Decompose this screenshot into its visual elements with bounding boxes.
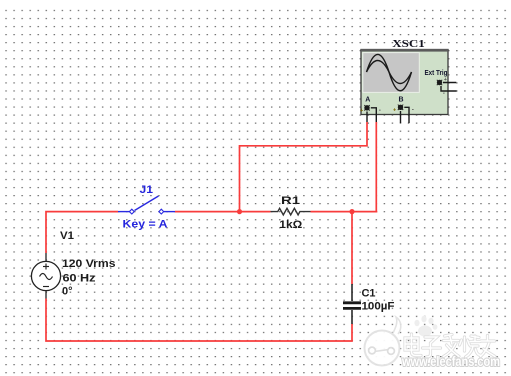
terminal A	[360, 105, 381, 114]
scope waveform outer	[367, 54, 412, 90]
svg-text:1kΩ: 1kΩ	[279, 219, 302, 231]
svg-text:C1: C1	[362, 287, 376, 299]
svg-text:J1: J1	[140, 184, 154, 196]
svg-text:120 Vrms: 120 Vrms	[62, 258, 116, 270]
junction left node	[237, 209, 242, 214]
svg-text:+: +	[444, 77, 447, 83]
wire: switch to resistor	[175, 211, 271, 213]
Ext Trig terminal	[437, 77, 447, 97]
svg-text:Ext Trig: Ext Trig	[425, 70, 448, 77]
wire: resistor to scope A- corner	[311, 211, 378, 213]
wire: left vertical below V1 + bottom run	[46, 299, 352, 342]
watermark paw	[414, 316, 437, 337]
svg-text:-: -	[443, 90, 445, 97]
terminal B	[393, 105, 414, 114]
junction capacitor node	[349, 209, 354, 214]
terminal A pins	[367, 108, 376, 122]
oscilloscope XSC1 body	[360, 49, 457, 123]
svg-text:A: A	[365, 96, 370, 103]
watermark logo circle	[365, 317, 401, 366]
svg-text:-: -	[379, 107, 381, 114]
svg-text:B: B	[399, 96, 404, 103]
terminal B pins	[401, 107, 410, 123]
resistor R1	[271, 208, 311, 215]
svg-text:+: +	[393, 108, 396, 114]
svg-text:+: +	[360, 108, 363, 114]
wire: scope A- vertical drop	[375, 122, 378, 212]
scope waveform inner	[367, 61, 412, 84]
capacitor C1	[343, 284, 361, 324]
svg-text:-: -	[412, 107, 414, 114]
Ext Trig pins	[441, 83, 457, 92]
voltage source V1 symbol	[31, 253, 60, 299]
wire: capacitor top branch	[351, 212, 353, 284]
svg-text:100µF: 100µF	[362, 300, 395, 312]
wire: scope A+ to left node (up-over-down)	[240, 122, 368, 212]
scope screen	[363, 53, 420, 93]
svg-text:XSC1: XSC1	[392, 38, 425, 50]
switch J1	[118, 196, 175, 214]
svg-text:R1: R1	[281, 195, 300, 207]
watermark chinese text dianzifashaoyou	[405, 334, 495, 357]
svg-text:Key = A: Key = A	[123, 219, 168, 231]
wire: main horizontal V1 to switch	[46, 212, 118, 253]
svg-text:www.elecfans.com: www.elecfans.com	[401, 354, 500, 369]
svg-text:V1: V1	[60, 230, 74, 242]
svg-text:0°: 0°	[62, 285, 73, 297]
svg-text:60 Hz: 60 Hz	[63, 273, 97, 285]
